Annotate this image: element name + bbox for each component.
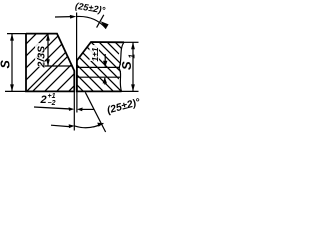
S dimension extension top [7, 33, 26, 35]
2/3S dimension line [47, 34, 49, 66]
svg-text:1: 1 [128, 54, 137, 59]
left plate hatching [20, 20, 92, 92]
top angle right arrow [101, 21, 109, 29]
bottom angle arc [75, 123, 104, 127]
gap right arrow [77, 108, 83, 112]
S dimension extension bottom [5, 90, 26, 92]
svg-text:S: S [119, 61, 134, 70]
line level 2 in right plate [77, 76, 120, 78]
S1 dimension extension bottom [122, 90, 139, 92]
S dimension arrow down [10, 84, 14, 91]
gap left arrow [69, 107, 75, 111]
bottom bevel extension line [85, 92, 105, 132]
svg-text:S: S [0, 60, 13, 69]
top angle vertical extension line [76, 13, 78, 61]
svg-text:1±1: 1±1 [90, 47, 100, 61]
S1 dimension line [132, 42, 134, 91]
2/3S extension line [44, 65, 73, 67]
S1 dimension extension top [124, 41, 139, 43]
1±1 lower arrow [104, 78, 106, 85]
svg-text:2: 2 [40, 94, 47, 106]
2/3S arrow up [46, 34, 50, 41]
gap right extension line [76, 91, 78, 112]
left plate outline [26, 34, 74, 92]
2/3S label halo [35, 43, 45, 67]
S dimension line [11, 34, 13, 92]
gap left extension line [73, 91, 75, 130]
svg-text:−2: −2 [48, 100, 56, 107]
right plate break line [119, 42, 124, 91]
line level 1 in right plate [77, 66, 120, 68]
gap dimension leader right [82, 108, 94, 110]
top angle arc [77, 16, 106, 28]
S dimension arrow up [10, 34, 14, 41]
top angle leader tail [55, 16, 71, 18]
1±1 upper arrow [104, 54, 106, 67]
top angle left arrow [70, 15, 77, 19]
S1 arrow up [131, 42, 135, 49]
1±1 label halo [90, 45, 100, 61]
S1 arrow down [131, 84, 135, 91]
top angle bevel extension stub [97, 15, 104, 28]
bottom arc right arrow [97, 123, 103, 127]
svg-text:2/3S: 2/3S [36, 46, 48, 69]
gap dimension leader left [34, 107, 70, 109]
right plate outline [77, 42, 124, 91]
right plate hatching [74, 41, 132, 94]
2/3S arrow down [46, 59, 50, 66]
bottom arc left arrow [69, 124, 75, 128]
bottom arc tail [51, 125, 69, 126]
